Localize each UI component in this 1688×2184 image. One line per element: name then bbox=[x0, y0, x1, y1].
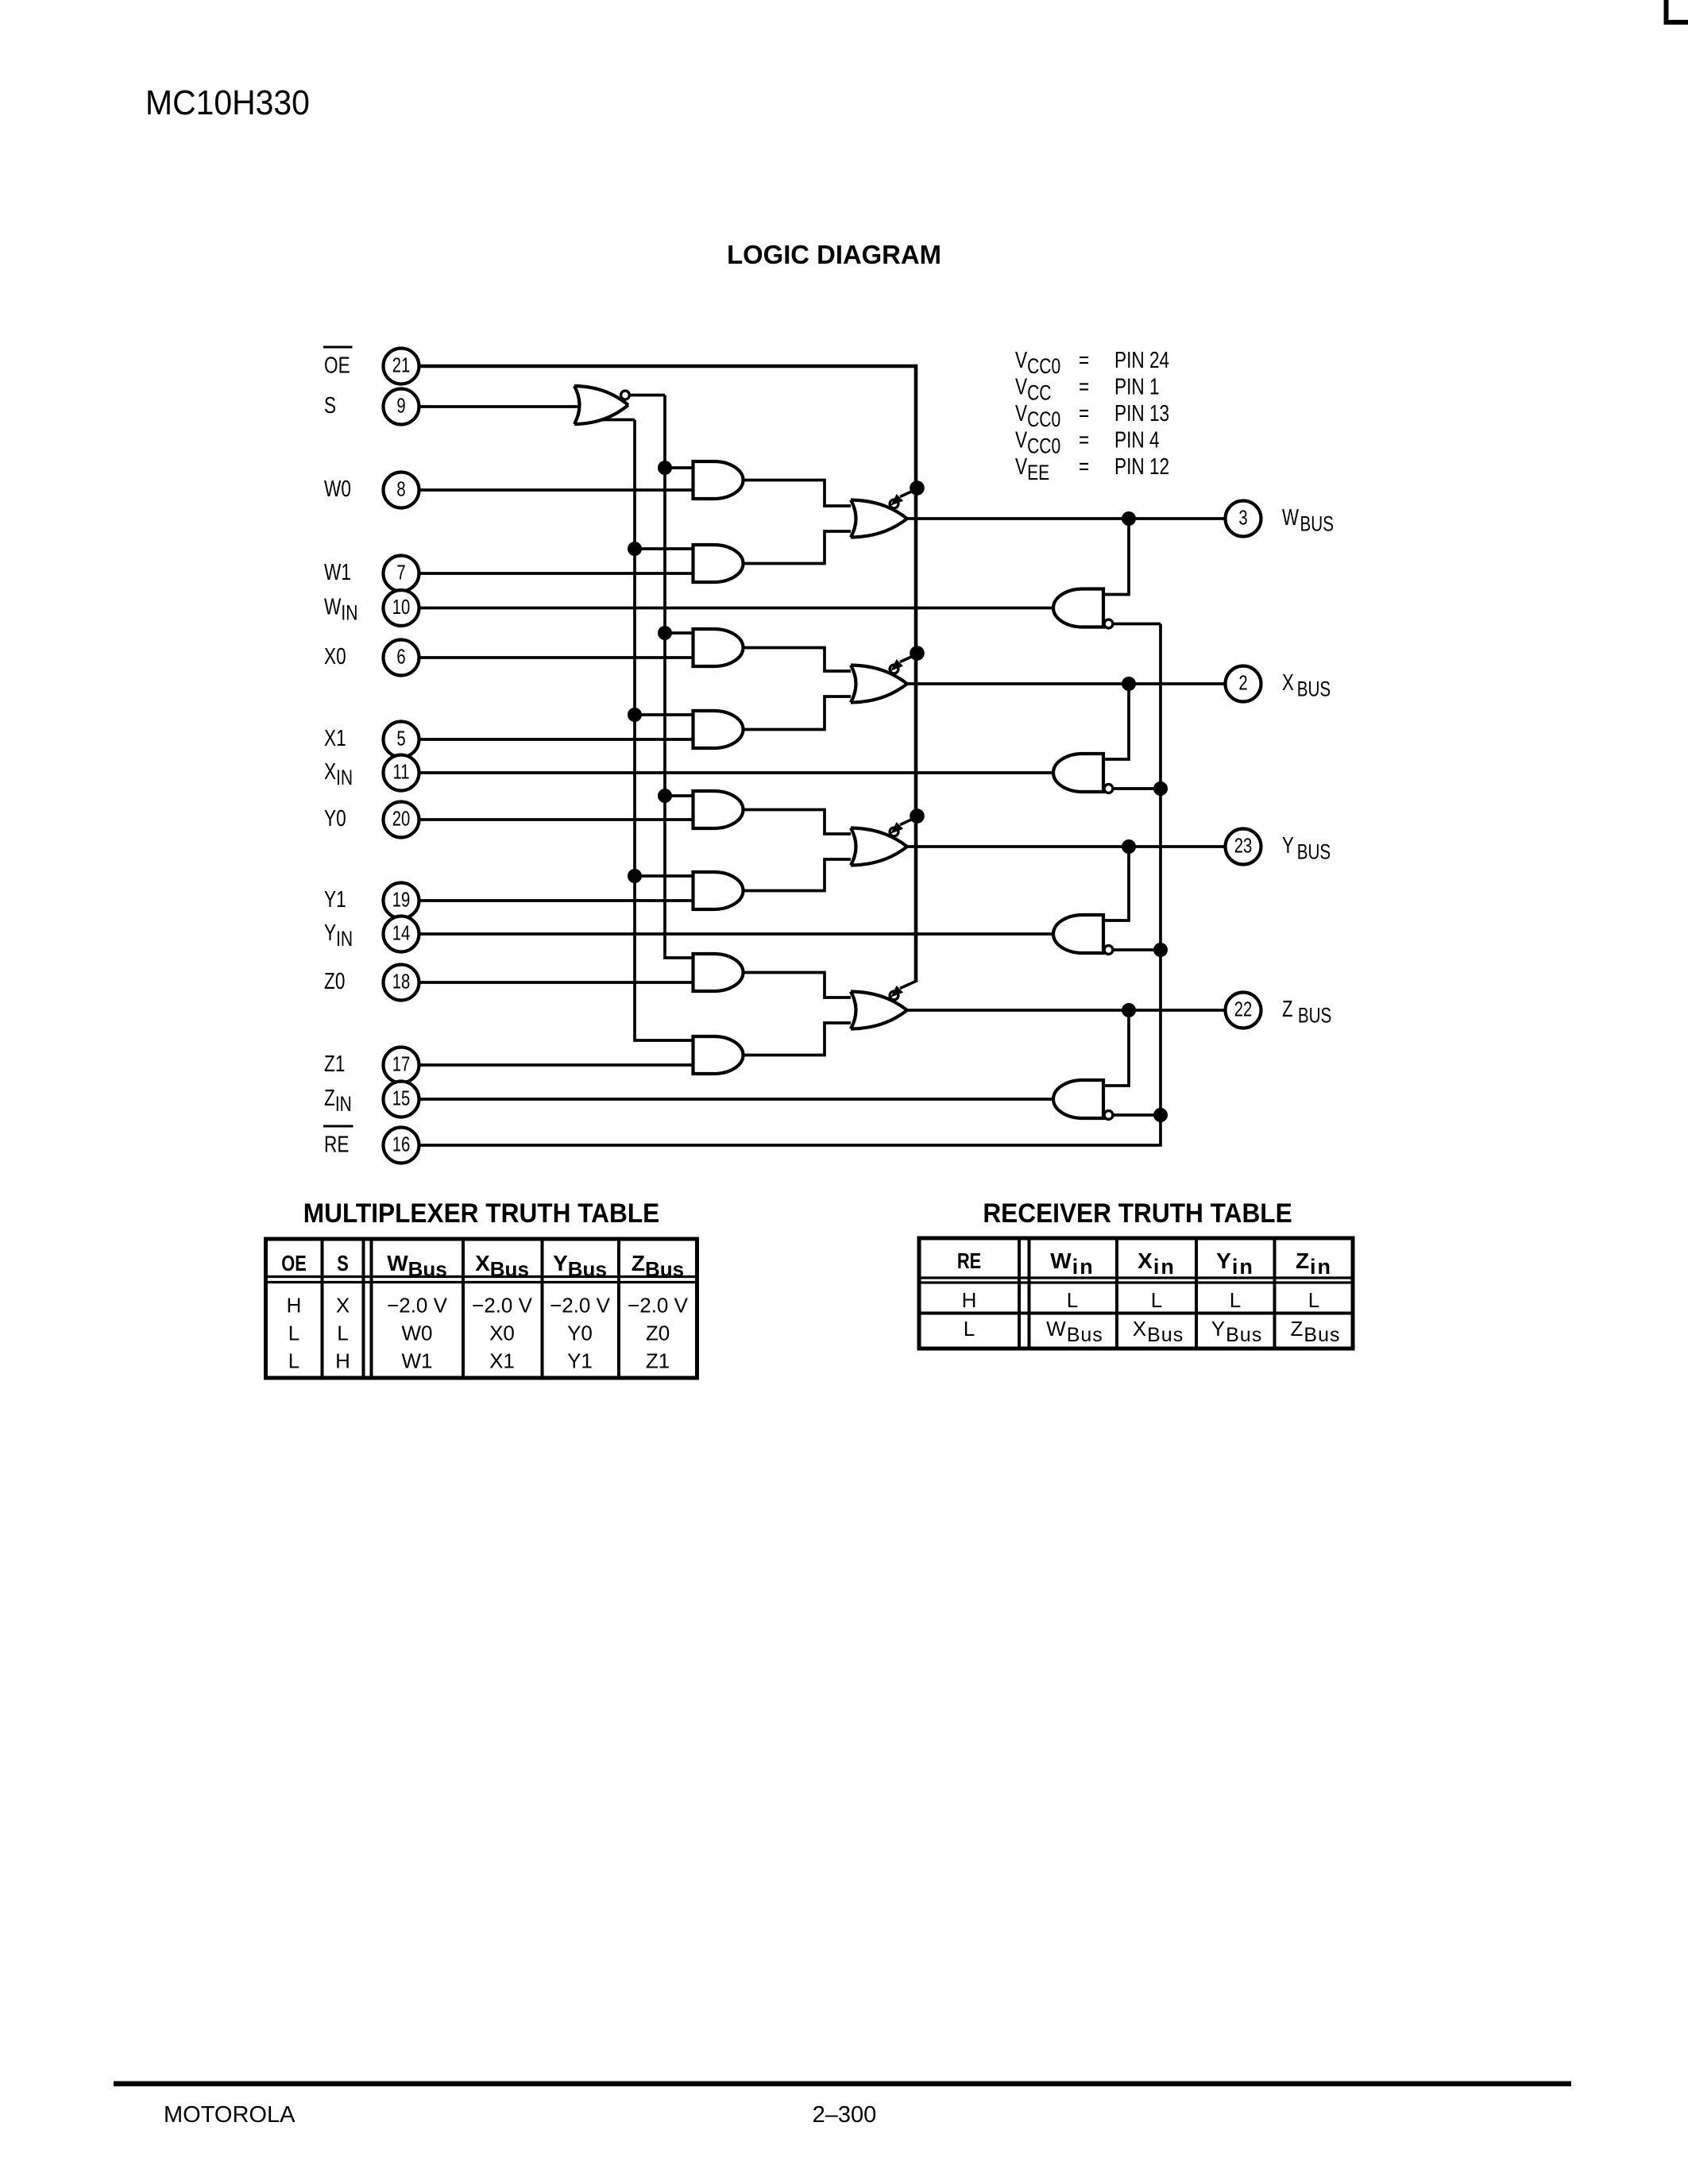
junction RE / Z receiver bbox=[1153, 1108, 1168, 1122]
svg-text:X0: X0 bbox=[489, 1322, 515, 1345]
svg-text:Y0: Y0 bbox=[324, 805, 346, 831]
svg-text:OE: OE bbox=[281, 1251, 307, 1275]
bubble U1 inverted output bbox=[621, 391, 630, 399]
wire W0 input bbox=[419, 488, 693, 492]
junction OE/X arrow bbox=[910, 646, 925, 661]
svg-text:H: H bbox=[962, 1288, 977, 1312]
wire X bus to receiver bbox=[1103, 684, 1129, 759]
svg-text:S: S bbox=[337, 1251, 349, 1275]
wire trunk A (S-bar) vertical bbox=[665, 396, 693, 959]
svg-text:Z0: Z0 bbox=[646, 1322, 670, 1345]
svg-text:19: 19 bbox=[392, 888, 411, 911]
svg-text:MOTOROLA: MOTOROLA bbox=[164, 2102, 295, 2128]
wire YBUS line bbox=[906, 845, 1225, 848]
wire Y1 gate output bbox=[744, 859, 852, 891]
svg-text:PIN 24: PIN 24 bbox=[1114, 346, 1169, 372]
svg-text:W0: W0 bbox=[324, 475, 351, 501]
wire Y0 gate output bbox=[744, 810, 852, 835]
junction RE / Y receiver bbox=[1153, 943, 1168, 957]
svg-text:L: L bbox=[288, 1322, 299, 1345]
svg-text:W1: W1 bbox=[402, 1349, 433, 1373]
pin 14 (YIN) bbox=[384, 916, 419, 952]
AND gate W0 (UWa) bbox=[693, 461, 744, 499]
wire Z0 input bbox=[419, 981, 693, 984]
svg-text:7: 7 bbox=[396, 561, 405, 584]
tri-state arrow Z bbox=[900, 981, 917, 989]
bubble UZd RE input bbox=[1104, 1111, 1113, 1120]
junction trunk B / W1 gate bbox=[628, 542, 642, 556]
svg-text:21: 21 bbox=[392, 353, 411, 376]
wire Z0 gate output bbox=[744, 973, 852, 998]
wire trunk B (S) vertical bbox=[635, 420, 693, 1041]
wire RE line bbox=[419, 1144, 1159, 1147]
junction RE / X receiver bbox=[1153, 781, 1168, 796]
pin 19 (Y1) bbox=[384, 883, 419, 919]
svg-text:L: L bbox=[1067, 1288, 1078, 1312]
wire RE trunk vertical bbox=[1159, 624, 1162, 1147]
svg-text:Z1: Z1 bbox=[324, 1050, 345, 1076]
svg-text:=: = bbox=[1079, 453, 1089, 479]
svg-text:14: 14 bbox=[392, 921, 411, 944]
svg-text:L: L bbox=[337, 1322, 348, 1345]
svg-text:Y0: Y0 bbox=[567, 1322, 593, 1345]
wire XBUS line bbox=[906, 682, 1225, 685]
pin 16 (RE) bbox=[384, 1128, 419, 1163]
svg-text:PIN 13: PIN 13 bbox=[1114, 399, 1169, 426]
wire W bus to receiver bbox=[1103, 519, 1129, 595]
pin 5 (X1) bbox=[384, 722, 419, 758]
pin 2 (XBUS) bbox=[1226, 666, 1261, 702]
pin 15 (ZIN) bbox=[384, 1082, 419, 1117]
svg-text:H: H bbox=[335, 1349, 350, 1373]
wire XIN output line bbox=[419, 771, 1054, 774]
junction trunk A / Y0 gate bbox=[658, 789, 672, 803]
wire WBUS line bbox=[906, 517, 1225, 520]
AND gate Y0 (UYa) bbox=[693, 791, 744, 828]
svg-text:2–300: 2–300 bbox=[813, 2102, 877, 2128]
AND gate Z0 (UZa) bbox=[693, 954, 744, 991]
svg-text:RECEIVER TRUTH TABLE: RECEIVER TRUTH TABLE bbox=[983, 1198, 1292, 1228]
wire UZd RE stub bbox=[1113, 1113, 1161, 1117]
wire Z1 input bbox=[419, 1063, 693, 1067]
junction trunk B / X1 gate bbox=[628, 708, 642, 722]
pin 23 (YBUS) bbox=[1226, 829, 1261, 865]
pin 9 (S) bbox=[384, 389, 419, 425]
bubble UWc enable bbox=[890, 500, 898, 508]
tri-state arrow X bbox=[900, 654, 917, 662]
svg-text:H: H bbox=[287, 1294, 302, 1318]
pin 8 (W0) bbox=[384, 473, 419, 508]
pin 3 (WBUS) bbox=[1226, 501, 1261, 537]
wire ZBUS line bbox=[906, 1009, 1225, 1012]
svg-text:9: 9 bbox=[396, 394, 405, 417]
svg-text:MC10H330: MC10H330 bbox=[145, 84, 310, 123]
svg-text:RE: RE bbox=[957, 1248, 981, 1273]
svg-text:17: 17 bbox=[392, 1052, 411, 1075]
wire UWd RE stub bbox=[1113, 623, 1161, 626]
receiver AND gate Z (UZd) bbox=[1053, 1080, 1103, 1118]
svg-text:=: = bbox=[1079, 373, 1089, 399]
pin 10 (WIN) bbox=[384, 590, 419, 626]
NOR bus driver Y (UYc) bbox=[851, 828, 856, 866]
svg-text:−2.0 V: −2.0 V bbox=[628, 1294, 689, 1318]
junction OE/Y arrow bbox=[910, 808, 925, 824]
NOR bus driver Z (UZc) bbox=[851, 992, 856, 1029]
pin 20 (Y0) bbox=[384, 802, 419, 838]
svg-text:−2.0 V: −2.0 V bbox=[387, 1294, 448, 1318]
wire S true to trunk B bbox=[601, 419, 635, 422]
svg-text:W1: W1 bbox=[324, 558, 351, 585]
svg-text:6: 6 bbox=[396, 645, 405, 668]
receiver AND gate W (UWd) bbox=[1053, 589, 1103, 627]
svg-text:PIN 12: PIN 12 bbox=[1114, 453, 1169, 479]
svg-text:3: 3 bbox=[1238, 506, 1247, 529]
wire X0 gate output bbox=[744, 648, 852, 672]
wire X1 gate output bbox=[744, 696, 852, 730]
svg-text:15: 15 bbox=[392, 1086, 411, 1109]
svg-text:OE: OE bbox=[324, 352, 350, 378]
svg-text:MULTIPLEXER TRUTH TABLE: MULTIPLEXER TRUTH TABLE bbox=[303, 1198, 659, 1228]
pin 11 (XIN) bbox=[384, 755, 419, 791]
junction ZBUS / receiver bbox=[1122, 1003, 1136, 1017]
svg-text:L: L bbox=[1151, 1288, 1162, 1312]
pin 17 (Z1) bbox=[384, 1048, 419, 1083]
wire Z1 gate output bbox=[744, 1023, 852, 1055]
pin 18 (Z0) bbox=[384, 965, 419, 1001]
wire UYd RE stub bbox=[1113, 948, 1161, 951]
wire Y0 input bbox=[419, 818, 693, 821]
svg-text:11: 11 bbox=[392, 760, 409, 783]
wire S-bar to trunk A bbox=[629, 394, 665, 397]
wire W1 input bbox=[419, 572, 693, 575]
multiplexer table grid bbox=[266, 1239, 697, 1378]
pin 22 (ZBUS) bbox=[1226, 993, 1261, 1028]
tri-state arrow W bbox=[900, 489, 917, 497]
svg-text:22: 22 bbox=[1234, 997, 1253, 1021]
svg-text:5: 5 bbox=[396, 727, 405, 750]
svg-text:2: 2 bbox=[1238, 671, 1247, 694]
svg-text:W0: W0 bbox=[402, 1322, 433, 1345]
svg-text:L: L bbox=[1308, 1288, 1319, 1312]
junction XBUS / receiver bbox=[1122, 677, 1136, 691]
footer rule bbox=[114, 2082, 1571, 2087]
receiver table grid bbox=[919, 1238, 1353, 1349]
svg-text:X0: X0 bbox=[324, 642, 346, 669]
wire ZIN output line bbox=[419, 1098, 1054, 1101]
AND gate Z1 (UZb) bbox=[693, 1036, 744, 1074]
wire WIN output line bbox=[419, 607, 1054, 610]
bubble UWd RE input bbox=[1104, 619, 1113, 628]
junction OE/W arrow bbox=[910, 480, 925, 496]
wire W0 gate output bbox=[744, 480, 852, 507]
AND gate X1 (UXb) bbox=[693, 711, 744, 748]
svg-text:X1: X1 bbox=[489, 1349, 515, 1373]
svg-text:20: 20 bbox=[392, 807, 411, 830]
svg-text:16: 16 bbox=[392, 1133, 411, 1156]
bubble UXc enable bbox=[890, 665, 898, 673]
svg-text:−2.0 V: −2.0 V bbox=[550, 1294, 611, 1318]
wire OE trunk vertical bbox=[914, 365, 918, 981]
receiver AND gate Y (UYd) bbox=[1053, 915, 1103, 953]
svg-text:−2.0 V: −2.0 V bbox=[472, 1294, 533, 1318]
junction YBUS / receiver bbox=[1122, 839, 1136, 854]
svg-text:L: L bbox=[288, 1349, 299, 1373]
svg-text:=: = bbox=[1079, 426, 1089, 453]
bubble UZc enable bbox=[890, 991, 898, 1000]
svg-text:S: S bbox=[324, 392, 336, 418]
wire X1 input bbox=[419, 738, 693, 741]
AND gate W1 (UWb) bbox=[693, 545, 744, 582]
svg-text:X: X bbox=[336, 1294, 350, 1318]
svg-text:X1: X1 bbox=[324, 724, 346, 751]
junction trunk A / X0 gate bbox=[658, 626, 672, 640]
wire Y bus to receiver bbox=[1103, 847, 1129, 920]
svg-text:8: 8 bbox=[396, 477, 405, 500]
svg-text:Y1: Y1 bbox=[324, 886, 346, 912]
wire Z bus to receiver bbox=[1103, 1010, 1129, 1086]
wire W1 gate output bbox=[744, 531, 852, 564]
wire X0 input bbox=[419, 656, 693, 659]
svg-text:PIN 4: PIN 4 bbox=[1114, 426, 1160, 453]
pin 6 (X0) bbox=[384, 640, 419, 676]
svg-text:LOGIC DIAGRAM: LOGIC DIAGRAM bbox=[727, 241, 941, 270]
pin 21 (OE) bbox=[384, 349, 419, 384]
pin 7 (W1) bbox=[384, 556, 419, 592]
junction trunk B / Y1 gate bbox=[628, 869, 642, 883]
AND gate X0 (UXa) bbox=[693, 629, 744, 666]
AND gate Y1 (UYb) bbox=[693, 872, 744, 909]
wire S input bbox=[419, 405, 578, 408]
receiver AND gate X (UXd) bbox=[1053, 754, 1103, 792]
svg-text:10: 10 bbox=[392, 596, 411, 619]
NOR bus driver X (UXc) bbox=[851, 666, 856, 703]
junction WBUS / receiver bbox=[1122, 511, 1136, 526]
tri-state arrow Y bbox=[900, 817, 917, 825]
svg-text:L: L bbox=[964, 1317, 975, 1341]
svg-text:=: = bbox=[1079, 399, 1089, 426]
wire OE line bbox=[419, 365, 916, 369]
junction trunk A / W0 gate bbox=[658, 461, 672, 475]
svg-text:PIN 1: PIN 1 bbox=[1114, 373, 1160, 399]
bubble UXd RE input bbox=[1104, 785, 1113, 793]
svg-text:=: = bbox=[1079, 346, 1089, 372]
svg-text:Y1: Y1 bbox=[567, 1349, 593, 1373]
wire UXd RE stub bbox=[1113, 787, 1161, 790]
svg-text:23: 23 bbox=[1234, 834, 1253, 857]
NOR bus driver W (UWc) bbox=[851, 500, 856, 538]
bubble UYd RE input bbox=[1104, 946, 1113, 955]
svg-text:18: 18 bbox=[392, 970, 411, 993]
wire Y1 input bbox=[419, 899, 693, 902]
svg-text:Z0: Z0 bbox=[324, 967, 345, 994]
svg-text:Z1: Z1 bbox=[646, 1349, 670, 1373]
bubble UYc enable bbox=[890, 828, 898, 836]
wire YIN output line bbox=[419, 932, 1054, 936]
svg-text:L: L bbox=[1230, 1288, 1241, 1312]
svg-text:RE: RE bbox=[324, 1131, 349, 1157]
gate U1 select buffer (OR symbol) bbox=[574, 386, 580, 424]
